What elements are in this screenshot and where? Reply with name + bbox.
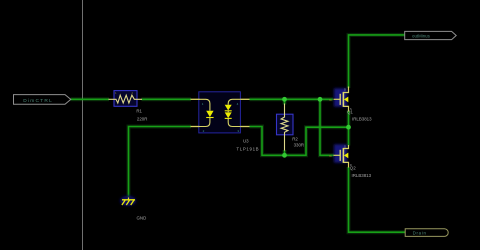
wire: R2 top connection	[284, 99, 286, 104]
svg-text:GND: GND	[137, 215, 147, 220]
svg-text:S: S	[344, 145, 346, 149]
wire: DimCTRL label to R1	[71, 98, 109, 100]
svg-text:U3: U3	[243, 139, 249, 144]
junction at R2 top	[282, 97, 287, 102]
wire: U3 pin3 to source node	[250, 127, 349, 156]
page frame line	[82, 0, 84, 250]
net label Drain	[405, 229, 448, 237]
wire glow underlay	[71, 35, 406, 232]
net label outMinus	[405, 31, 457, 39]
wire: R2 bottom connection	[284, 150, 286, 155]
junction at gate branch	[318, 97, 323, 102]
net label DimCTRL	[14, 95, 71, 105]
wire: Q1 source to Q2	[348, 111, 350, 146]
ground	[120, 196, 136, 206]
transistor Q1	[329, 87, 352, 112]
svg-text:D: D	[344, 88, 346, 92]
resistor R1	[109, 91, 143, 107]
svg-text:TLP191B: TLP191B	[236, 146, 259, 151]
wire: Q1 drain to outMinus	[349, 35, 405, 88]
wire: U3 pin2 to ground	[129, 127, 192, 198]
resistor R2	[277, 104, 294, 151]
svg-text:IRLB3813: IRLB3813	[352, 117, 372, 122]
opto-coupler U3	[191, 92, 250, 133]
svg-text:330R: 330R	[294, 143, 305, 148]
junction at R2 bottom	[282, 153, 287, 158]
junction at source node	[346, 125, 351, 130]
svg-text:R1: R1	[136, 109, 142, 114]
svg-text:220R: 220R	[137, 116, 148, 121]
svg-text:Q1: Q1	[347, 110, 353, 115]
wire: R1 to U3 pin1	[142, 98, 192, 100]
svg-text:outMinus: outMinus	[412, 33, 431, 38]
svg-text:Q2: Q2	[350, 165, 356, 170]
svg-text:R2: R2	[292, 137, 298, 142]
svg-text:Drain: Drain	[413, 231, 427, 236]
svg-text:DimCTRL: DimCTRL	[23, 98, 53, 104]
wire: gate rail branch down to Q2 gate	[320, 99, 334, 155]
wire: Q2 drain to Drain label	[349, 167, 406, 232]
transistor Q2	[329, 144, 352, 167]
svg-text:IRLB3813: IRLB3813	[352, 173, 372, 178]
wire: U3 pin4 to gate rail	[250, 98, 334, 100]
